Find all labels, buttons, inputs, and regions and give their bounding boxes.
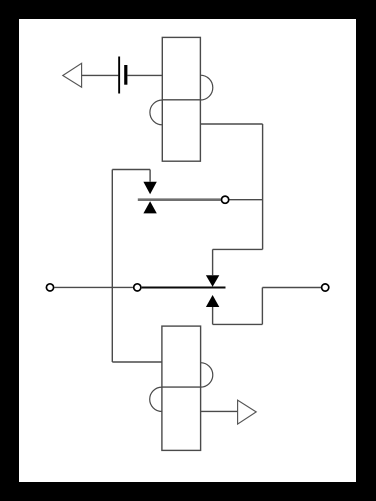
wire: left arrow to battery [82,74,119,76]
wire: vertical drop from U1 output to Q2 gate step [262,124,264,249]
U1 coupling arc (left) [150,100,162,125]
off-page connector arrow (right output) [238,400,257,424]
node circle: Q2 source terminal [134,284,141,291]
wire: Q2 gate step horizontal [213,248,263,250]
wire: battery to module U1 input [127,74,162,76]
U1 coupling arc (right) [200,75,212,100]
node circle: output terminal (right) [322,284,329,291]
wire: to output node [262,287,321,289]
transistor Q1 (upper) [138,182,221,214]
U2 coupling arc (left) [150,387,162,411]
module U1 (top cell) [162,37,200,161]
wire: drain step vertical up [261,288,263,325]
module U2 (bottom cell) [162,326,201,450]
wire: left branch vertical (crosses middle rail) [111,170,113,363]
U2 coupling arc (right) [201,363,213,387]
U1 divider line [162,99,200,101]
wire: Q1 gate vertical [149,170,151,182]
wire: Q2 drain vertical (below) [212,307,214,324]
wire: drain step horizontal [213,323,263,325]
node circle: Q1 drain terminal [222,196,229,203]
wire: Q1 gate step horizontal [112,169,150,171]
wire: U1 output horizontal [200,123,262,125]
off-page connector arrow (left output) [63,63,82,87]
wire: left branch to U2 input [112,361,162,363]
battery B1 [118,57,127,94]
wire: middle rail [54,286,132,288]
wire: Q2 gate vertical [212,249,214,275]
node circle: input terminal (left) [46,284,53,291]
wire: U2 output horizontal [201,410,238,412]
wire: branch to Q1 drain node [229,199,262,201]
U2 divider line [162,386,201,388]
transistor Q2 (lower) [142,275,226,307]
